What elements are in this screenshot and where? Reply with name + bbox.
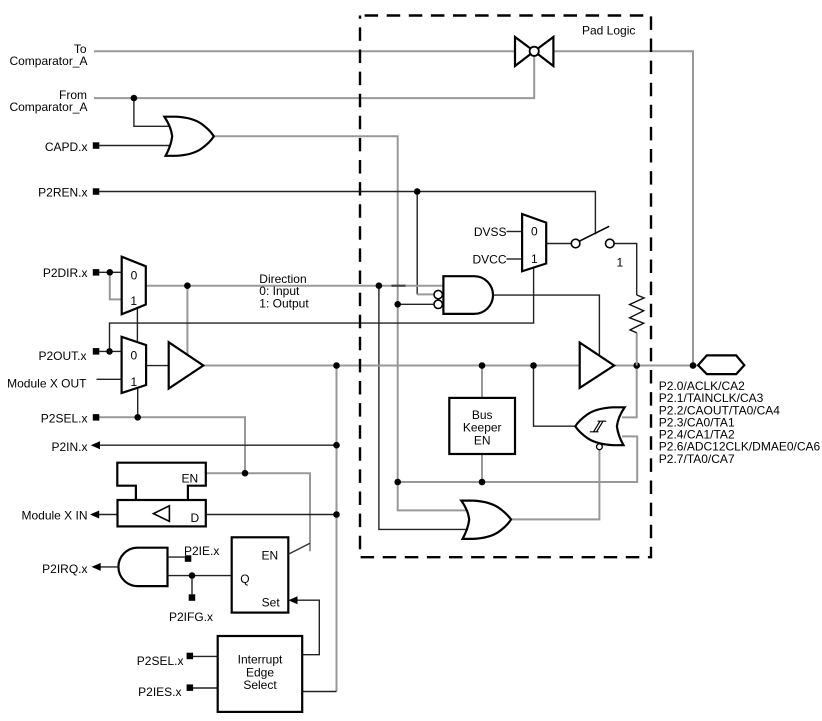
- switch S1: [579, 226, 609, 241]
- svg-text:Module X IN: Module X IN: [21, 509, 87, 523]
- svg-text:P2DIR.x: P2DIR.x: [43, 266, 88, 280]
- wire CAPD.x: [99, 145, 172, 147]
- node D junction: [333, 511, 340, 518]
- wire OR output down pad column: [214, 136, 467, 510]
- wire D latch input: [206, 514, 337, 516]
- Schmitt enable bubble: [597, 444, 603, 450]
- svg-text:Comparator_A: Comparator_A: [9, 54, 87, 68]
- svg-text:Module X OUT: Module X OUT: [7, 376, 87, 390]
- flip-flop FF1: [232, 537, 289, 612]
- node P2IFG junction: [189, 572, 196, 579]
- wire P2REN branch to AND bubble: [416, 192, 418, 295]
- node Direction junction 1: [184, 282, 191, 289]
- wire buffer output / pad line: [203, 365, 579, 367]
- svg-text:P2IES.x: P2IES.x: [138, 685, 181, 699]
- node pad junction 2: [479, 362, 486, 369]
- wire enable line y482: [398, 436, 638, 482]
- wire IES output to input column: [302, 691, 336, 693]
- svg-text:1: 1: [130, 294, 137, 308]
- arrow P2IN.x output: [91, 441, 100, 449]
- node P2SEL junction: [134, 414, 141, 421]
- svg-text:1: Output: 1: Output: [259, 297, 309, 311]
- wire P2OUT mux output: [146, 365, 169, 367]
- net label To Comparator_A: [9, 42, 87, 68]
- node CAPD-AND junction: [394, 301, 401, 308]
- svg-text:EN: EN: [262, 549, 279, 563]
- wire DVSS mux output to switch: [546, 243, 571, 245]
- register bit tap P2IE.x: [185, 555, 192, 562]
- svg-text:1: 1: [130, 375, 137, 389]
- svg-text:P2SEL.x: P2SEL.x: [41, 411, 88, 425]
- node pad junction 4: [633, 362, 640, 369]
- svg-text:0: 0: [531, 225, 538, 239]
- register bit tap P2REN.x: [93, 188, 100, 195]
- svg-text:Pad Logic: Pad Logic: [582, 23, 635, 37]
- wire input column (Schmitt out): [336, 366, 338, 692]
- AND gate U2 (pad logic, bubbled inputs): [443, 276, 493, 314]
- wire Direction to buffer enable: [186, 286, 188, 355]
- net label From Comparator_A: [9, 88, 87, 114]
- node pad junction 1: [333, 362, 340, 369]
- wire DVSS stub: [507, 231, 523, 233]
- bubble input 2: [434, 300, 442, 308]
- svg-text:P2IN.x: P2IN.x: [51, 440, 87, 454]
- register bit tap P2SEL.x 2: [187, 653, 194, 660]
- wire IES to set arrow: [297, 600, 319, 655]
- pad hexagon: [698, 355, 744, 374]
- wire EN latch enable: [206, 473, 310, 551]
- svg-text:Interrupt: Interrupt: [238, 652, 283, 666]
- svg-text:P2.7/TA0/CA7: P2.7/TA0/CA7: [659, 452, 735, 466]
- pin name list P2.0-P2.7: [659, 379, 821, 466]
- output buffer U4: [580, 343, 614, 388]
- node P2SEL-EN junction: [242, 470, 249, 477]
- wire From Comparator_A: [94, 51, 534, 98]
- node Direction junction 2: [376, 282, 383, 289]
- svg-text:DVSS: DVSS: [474, 225, 507, 239]
- svg-text:P2SEL.x: P2SEL.x: [137, 654, 184, 668]
- wire OR2 output to Schmitt enable bubble: [511, 450, 599, 520]
- wire transmission gate to pad column: [553, 51, 693, 365]
- wire AND output to output buffer enable: [493, 295, 599, 355]
- svg-text:P2IFG.x: P2IFG.x: [169, 610, 213, 624]
- wire CAPD column to AND bubble: [398, 303, 434, 305]
- node P2REN junction: [414, 188, 421, 195]
- node P2DIR junction: [107, 269, 114, 276]
- wire Direction down to OR input: [379, 286, 467, 530]
- wire pad to Schmitt top input: [622, 366, 637, 418]
- buffer U3 (output path): [169, 342, 204, 388]
- wire pad line right segment: [614, 365, 698, 367]
- D latch box: [118, 500, 206, 526]
- wire IRQ output: [100, 566, 118, 568]
- register bit tap P2IES.x: [187, 684, 194, 691]
- svg-text:Comparator_A: Comparator_A: [9, 100, 87, 114]
- svg-text:Select: Select: [243, 678, 277, 692]
- OR gate U1 (CAPD): [164, 117, 213, 156]
- wire P2OUT.x: [99, 350, 121, 352]
- annotation Direction 0: Input 1: Output: [259, 272, 309, 311]
- svg-text:P2REN.x: P2REN.x: [38, 185, 87, 199]
- wire P2IN.x: [100, 444, 337, 446]
- node enable junction 2: [479, 479, 486, 486]
- node pad junction 3: [530, 362, 537, 369]
- edge trigger flag: [289, 543, 310, 554]
- wire Module X IN: [99, 514, 118, 516]
- svg-text:EN: EN: [182, 471, 199, 485]
- wire P2DIR mux select vertical: [136, 308, 138, 342]
- node P2IN junction: [333, 442, 340, 449]
- EN latch (Module X IN enable): [117, 463, 206, 500]
- mux M1 P2DIR: [122, 257, 146, 315]
- node pad junction 5: [690, 362, 697, 369]
- wire Schmitt tip to pad line: [534, 366, 576, 427]
- wire P2OUT select line to DVSS/DVCC mux: [110, 267, 534, 351]
- OR gate U6 (pad logic bottom): [461, 501, 511, 539]
- wire P2IE stub: [168, 556, 185, 558]
- mux M2 P2OUT: [122, 337, 147, 393]
- Schmitt trigger U5: [575, 407, 624, 445]
- svg-text:Q: Q: [240, 572, 249, 586]
- pad logic dashed border: [360, 16, 651, 558]
- svg-text:D: D: [191, 511, 200, 525]
- node From junction: [131, 95, 138, 102]
- node enable junction 1: [394, 479, 401, 486]
- svg-text:Set: Set: [262, 595, 281, 609]
- svg-text:1: 1: [531, 252, 538, 266]
- arrow Module X IN output: [90, 511, 99, 519]
- wire From branch to OR gate: [134, 98, 172, 126]
- wire bus keeper bottom: [481, 454, 483, 482]
- svg-text:CAPD.x: CAPD.x: [45, 140, 88, 154]
- bubble input 1: [434, 290, 442, 298]
- transmission gate: [515, 37, 553, 66]
- svg-text:DVCC: DVCC: [472, 253, 506, 267]
- wire Q line: [168, 575, 232, 577]
- svg-text:P2OUT.x: P2OUT.x: [38, 349, 86, 363]
- AND gate U7 (IRQ): [118, 548, 167, 586]
- wire P2SEL.x 2 stub: [193, 655, 218, 657]
- Interrupt Edge Select box: [218, 636, 303, 712]
- wire DVCC stub: [507, 258, 523, 260]
- Bus Keeper EN box: [449, 398, 515, 454]
- wire P2REN.x: [99, 192, 595, 235]
- mux M3 DVSS/DVCC: [522, 214, 546, 271]
- svg-text:0: 0: [130, 349, 137, 363]
- node P2OUT junction: [106, 348, 113, 355]
- wire switch to resistor: [614, 244, 637, 296]
- register bit tap P2DIR.x: [93, 269, 100, 276]
- svg-text:EN: EN: [474, 433, 491, 447]
- wire Direction: [146, 285, 444, 287]
- arrow P2IRQ.x output: [92, 563, 101, 571]
- register bit tap P2OUT.x: [93, 348, 100, 355]
- wire P2DIR branch to input 1: [110, 272, 122, 299]
- wire P2OUT mux select from P2SEL: [137, 387, 139, 417]
- wire Module X OUT: [97, 378, 122, 380]
- wire To Comparator_A: [94, 50, 515, 52]
- hysteresis symbol: [590, 421, 607, 432]
- svg-text:P2IRQ.x: P2IRQ.x: [42, 562, 87, 576]
- wire P2SEL.x: [99, 417, 245, 473]
- wire resistor to pad line: [636, 333, 638, 366]
- register bit tap P2SEL.x: [93, 414, 100, 421]
- register bit tap CAPD.x: [93, 142, 100, 149]
- arrow Set input: [288, 596, 297, 604]
- svg-text:1: 1: [617, 255, 624, 269]
- wire Direction dark overlap segment: [392, 285, 406, 287]
- register bit tap P2IFG.x: [189, 594, 196, 601]
- resistor R1: [630, 295, 645, 333]
- wire P2IFG stub: [191, 576, 193, 595]
- wire P2DIR.x input 0: [99, 271, 121, 273]
- svg-text:0: 0: [131, 269, 138, 283]
- wire bus keeper top: [481, 366, 483, 398]
- wire P2IES.x stub: [193, 687, 218, 689]
